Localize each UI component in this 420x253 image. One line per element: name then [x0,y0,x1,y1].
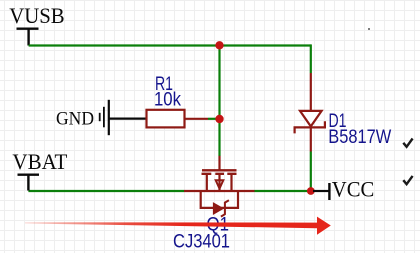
diode D1 [295,73,325,152]
wire VUSB top horizontal [29,44,311,46]
svg-text:GND: GND [56,110,94,130]
transistor Q1 (PMOS) [184,156,255,217]
svg-text:CJ3401: CJ3401 [173,232,230,253]
port VCC [313,176,374,201]
svg-text:VCC: VCC [332,176,375,201]
annotation arrow [25,217,331,235]
svg-text:B5817W: B5817W [328,127,391,148]
wire resistor to gate column [208,118,220,120]
port VBAT [12,149,68,191]
junction right bottom [307,187,315,195]
port VUSB [9,3,64,45]
wire right column upper [310,44,312,73]
wire bottom right horizontal [255,190,311,192]
svg-text:VBAT: VBAT [12,149,68,174]
checkmark 1 [403,139,412,147]
svg-text:VUSB: VUSB [9,3,64,28]
checkmark 2 [403,176,412,184]
resistor R1 [147,110,209,128]
port GND [56,100,147,135]
wire right column lower [310,152,312,192]
svg-text:10k: 10k [154,89,181,110]
wire VBAT bottom left horizontal [28,190,184,192]
wire gate column vertical [218,46,220,157]
speck [368,28,370,30]
junction middle [215,115,223,123]
junction top [215,41,223,49]
